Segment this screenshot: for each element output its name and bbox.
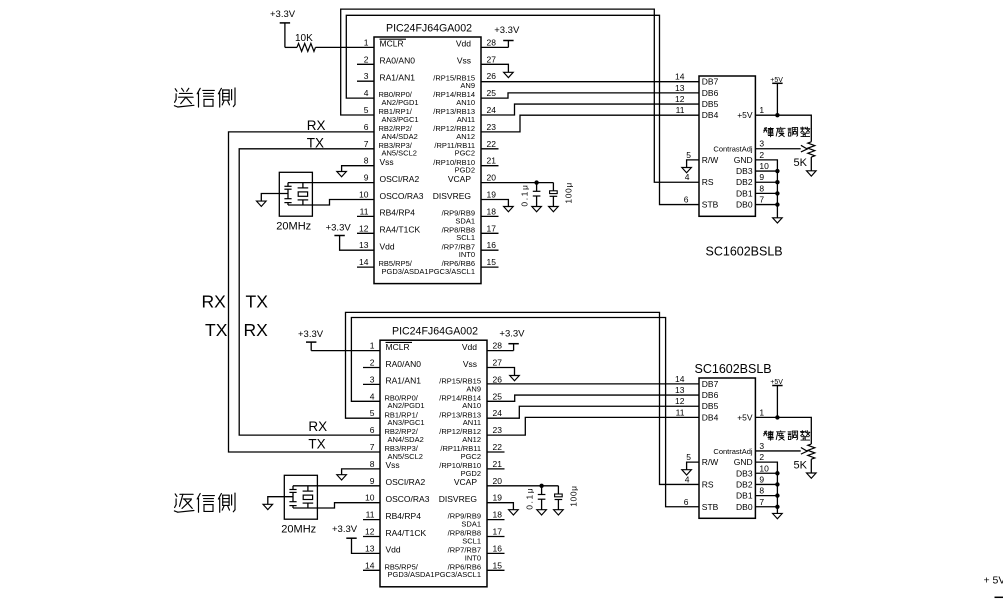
svg-text:AN3/PGC1: AN3/PGC1 — [388, 418, 425, 427]
svg-text:DB4: DB4 — [702, 412, 719, 422]
power +5V symbol at U4 pin1 — [770, 379, 783, 417]
svg-text:INT0: INT0 — [465, 553, 481, 562]
wire U3 pin26 RB15 to U4 DB7 — [487, 383, 699, 385]
svg-text:RX: RX — [307, 118, 326, 133]
svg-text:RA0/AN0: RA0/AN0 — [386, 359, 422, 369]
svg-text:DB4: DB4 — [702, 110, 719, 120]
svg-text:22: 22 — [493, 442, 503, 452]
svg-text:Vss: Vss — [386, 460, 400, 470]
wire U1 pin24 RB13 to U2 DB5 — [481, 104, 699, 115]
svg-text:DB2: DB2 — [736, 479, 753, 489]
svg-text:SCL1: SCL1 — [462, 536, 481, 545]
svg-text:Vdd: Vdd — [462, 342, 477, 352]
svg-text:RS: RS — [702, 177, 714, 187]
svg-text:VCAP: VCAP — [448, 174, 471, 184]
svg-text:6: 6 — [364, 122, 369, 132]
svg-text:1: 1 — [759, 407, 764, 417]
power +3.3V symbol at U1 pin28 Vdd — [481, 25, 520, 47]
wire U4 GND/DB3-DB0 bus to ground — [755, 462, 777, 513]
svg-text:DISVREG: DISVREG — [433, 191, 471, 201]
svg-text:24: 24 — [493, 408, 503, 418]
wire +3.3V to U3 pin1 MCLR — [311, 350, 380, 352]
svg-text:2: 2 — [370, 358, 375, 368]
ground at capacitor C2 — [549, 207, 559, 212]
svg-text:OSCI/RA2: OSCI/RA2 — [380, 174, 420, 184]
svg-text:100μ: 100μ — [564, 182, 574, 203]
svg-text:20MHz: 20MHz — [281, 523, 316, 535]
svg-text:DB6: DB6 — [702, 390, 719, 400]
LCD module U2 SC1602BSLB body — [699, 76, 783, 259]
svg-text:+5V: +5V — [737, 412, 753, 422]
ground at U4 R/W pin5 — [682, 462, 699, 475]
svg-text:SCL1: SCL1 — [456, 233, 475, 242]
svg-text:TX: TX — [246, 292, 269, 312]
ground at capacitor C4 — [554, 510, 564, 515]
svg-text:0.1μ: 0.1μ — [520, 183, 530, 206]
svg-text:PGD3/ASDA1: PGD3/ASDA1 — [382, 267, 429, 276]
svg-text:PGC3/ASCL1: PGC3/ASCL1 — [429, 267, 475, 276]
svg-text:RA4/T1CK: RA4/T1CK — [386, 528, 427, 538]
ground at potentiometer VR2 — [807, 473, 817, 478]
svg-text:AN3/PGC1: AN3/PGC1 — [382, 115, 419, 124]
svg-text:SDA1: SDA1 — [455, 216, 475, 225]
svg-text:1: 1 — [364, 37, 369, 47]
U1 unconnected right pin stubs (22,21,18,17,16,15) — [481, 149, 499, 267]
svg-text:Vss: Vss — [463, 359, 477, 369]
svg-text:ContrastAdj: ContrastAdj — [713, 447, 753, 456]
svg-text:SC1602BSLB: SC1602BSLB — [706, 245, 783, 259]
svg-text:4: 4 — [364, 88, 369, 98]
svg-text:AN11: AN11 — [457, 115, 475, 124]
svg-text:3: 3 — [370, 374, 375, 384]
wire U1 pin23 RB12 to U2 DB4 — [481, 115, 699, 132]
svg-text:RB4/RP4: RB4/RP4 — [386, 511, 422, 521]
svg-text:6: 6 — [684, 195, 689, 205]
ground at U1 pin27 Vss — [481, 64, 513, 77]
svg-text:OSCO/RA3: OSCO/RA3 — [380, 191, 424, 201]
svg-text:DB7: DB7 — [702, 77, 719, 87]
svg-text:AN9: AN9 — [460, 81, 475, 90]
label brightness adjust (kido chousei) — [764, 431, 774, 440]
svg-text:3: 3 — [759, 441, 764, 451]
svg-text:14: 14 — [359, 257, 369, 267]
svg-text:PGC3/ASCL1: PGC3/ASCL1 — [435, 570, 481, 579]
svg-text:22: 22 — [487, 139, 497, 149]
svg-text:4: 4 — [370, 391, 375, 401]
svg-text:DISVREG: DISVREG — [439, 494, 477, 504]
wire U1 pin25 RB14 to U2 DB6 — [481, 93, 699, 98]
svg-text:15: 15 — [493, 560, 503, 570]
junction node VCAP — [539, 484, 543, 488]
svg-text:19: 19 — [487, 190, 497, 200]
svg-text:28: 28 — [487, 37, 497, 47]
svg-text:AN4/SDA2: AN4/SDA2 — [382, 132, 418, 141]
wire TX net U3 pin7 RB3 (crossover from U1 RX) — [229, 303, 381, 452]
svg-text:5: 5 — [686, 150, 691, 160]
svg-text:RB4/RP4: RB4/RP4 — [380, 208, 416, 218]
svg-text:20: 20 — [487, 173, 497, 183]
wire U1 pin4 RB0 to U2 STB (inner frame) — [346, 15, 699, 204]
svg-text:27: 27 — [493, 358, 503, 368]
svg-text:+3.3V: +3.3V — [298, 329, 324, 340]
wire TX net U1 pin7 RB3 — [239, 149, 374, 303]
svg-text:+3.3V: +3.3V — [270, 9, 296, 20]
svg-text:13: 13 — [359, 240, 369, 250]
svg-text:RA1/AN1: RA1/AN1 — [380, 73, 416, 83]
ground at U3 pin8 Vss — [337, 469, 380, 480]
svg-text:9: 9 — [364, 173, 369, 183]
svg-text:AN10: AN10 — [462, 401, 481, 410]
U4 pin numbers — [675, 374, 769, 507]
svg-text:1: 1 — [370, 341, 375, 351]
svg-text:25: 25 — [487, 88, 497, 98]
ground at X2 mid terminal — [263, 497, 293, 510]
svg-text:Vdd: Vdd — [386, 545, 401, 555]
svg-text:RX: RX — [244, 320, 269, 340]
svg-text:5: 5 — [370, 408, 375, 418]
U3 unconnected left pin stubs (2,3,11,12,14) — [363, 368, 380, 571]
svg-text:2: 2 — [364, 54, 369, 64]
svg-text:AN10: AN10 — [456, 98, 475, 107]
wire RX net U1 pin6 RB2 — [229, 132, 375, 303]
wire RX net U3 pin6 RB2 (crossover from U1 TX) — [239, 303, 380, 435]
svg-text:+ 5V: + 5V — [984, 575, 1003, 587]
ground at capacitor C3 — [537, 510, 547, 515]
wire U3 pin25 RB14 to U4 DB6 — [487, 395, 699, 401]
svg-text:RA1/AN1: RA1/AN1 — [386, 376, 422, 386]
svg-text:PIC24FJ64GA002: PIC24FJ64GA002 — [392, 326, 478, 338]
ground at U3 pin19 DISVREG — [487, 503, 518, 515]
svg-text:25: 25 — [493, 391, 503, 401]
svg-text:10K: 10K — [295, 33, 313, 44]
svg-text:RX: RX — [308, 419, 327, 434]
svg-text:ContrastAdj: ContrastAdj — [713, 145, 753, 154]
power +3.3V symbol at U3 pin28 Vdd — [487, 328, 525, 350]
wire U3 pin4 RB0 to U4 STB (inner frame) — [351, 318, 699, 507]
svg-text:26: 26 — [487, 71, 497, 81]
svg-text:13: 13 — [675, 83, 685, 93]
svg-text:9: 9 — [759, 474, 764, 484]
capacitor C1 0.1u — [520, 183, 541, 207]
svg-text:RX: RX — [202, 292, 227, 312]
svg-text:1: 1 — [759, 105, 764, 115]
svg-text:7: 7 — [759, 497, 764, 507]
ground at X1 mid terminal — [257, 194, 289, 207]
svg-text:PGD3/ASDA1: PGD3/ASDA1 — [388, 570, 435, 579]
svg-text:AN2/PGD1: AN2/PGD1 — [388, 401, 425, 410]
svg-text:14: 14 — [675, 72, 685, 82]
capacitor C2 100u electrolytic — [550, 182, 574, 206]
svg-text:OSCI/RA2: OSCI/RA2 — [386, 477, 426, 487]
wire U2 GND/DB3-DB0 bus to ground — [755, 160, 777, 218]
svg-text:21: 21 — [493, 459, 503, 469]
svg-text:OSCO/RA3: OSCO/RA3 — [386, 494, 430, 504]
wire X1 bottom terminal to U1 pin10 OSCO — [288, 200, 374, 206]
svg-text:8: 8 — [364, 156, 369, 166]
wire U3 pin5 RB1 to U4 RS (outer frame) — [346, 312, 700, 484]
svg-text:13: 13 — [675, 385, 685, 395]
svg-text:10: 10 — [359, 190, 369, 200]
ground at U1 pin19 DISVREG — [481, 200, 513, 212]
svg-text:DB7: DB7 — [702, 379, 719, 389]
U3 pin numbers — [365, 341, 502, 571]
label reply side (henshin-gawa) — [174, 494, 194, 512]
svg-text:14: 14 — [365, 560, 375, 570]
svg-text:8: 8 — [759, 183, 764, 193]
svg-text:9: 9 — [759, 172, 764, 182]
svg-text:27: 27 — [487, 54, 497, 64]
wire U1 pin20 VCAP to capacitors — [481, 182, 553, 184]
power +3.3V symbol for MCLR pull-up — [270, 9, 296, 48]
power +3.3V symbol at U1 pin13 Vdd — [326, 222, 374, 250]
wire U1 pin5 RB1 to U2 RS (outer frame) — [341, 9, 699, 182]
resistor R1 10K — [285, 33, 316, 51]
label sending side (soushin-gawa) — [174, 88, 194, 107]
svg-text:19: 19 — [493, 493, 503, 503]
wire U3 pin23 RB12 to U4 DB4 — [487, 417, 699, 435]
svg-text:11: 11 — [360, 206, 369, 216]
svg-text:18: 18 — [487, 206, 497, 216]
svg-text:5: 5 — [364, 105, 369, 115]
svg-text:6: 6 — [370, 425, 375, 435]
svg-text:Vdd: Vdd — [380, 242, 395, 252]
ceramic resonator X1 20MHz module — [276, 172, 312, 232]
svg-text:DB5: DB5 — [702, 401, 719, 411]
U2 pin numbers — [675, 72, 769, 205]
svg-text:+3.3V: +3.3V — [494, 25, 520, 36]
svg-text:0.1μ: 0.1μ — [525, 487, 535, 510]
svg-text:RA4/T1CK: RA4/T1CK — [380, 225, 421, 235]
svg-text:AN4/SDA2: AN4/SDA2 — [388, 435, 424, 444]
svg-text:TX: TX — [308, 437, 325, 452]
partial +5V power symbol at bottom right edge — [984, 575, 1003, 598]
svg-text:DB2: DB2 — [736, 177, 753, 187]
ground at U2 R/W pin5 — [682, 160, 699, 173]
LCD module U4 SC1602BSLB body — [695, 362, 772, 518]
svg-text:14: 14 — [675, 374, 685, 384]
svg-text:8: 8 — [370, 459, 375, 469]
wire MCLR net to U1 pin1 — [316, 46, 375, 48]
svg-text:23: 23 — [487, 122, 497, 132]
svg-text:Vss: Vss — [457, 56, 471, 66]
svg-text:11: 11 — [676, 105, 685, 115]
label brightness adjust (kido chousei) — [764, 128, 774, 137]
svg-text:7: 7 — [759, 195, 764, 205]
svg-text:AN9: AN9 — [466, 384, 481, 393]
svg-text:R/W: R/W — [702, 155, 719, 165]
svg-text:12: 12 — [365, 527, 375, 537]
U3 unconnected right pin stubs (22,21,18,17,16,15) — [487, 452, 505, 570]
svg-text:DB1: DB1 — [736, 491, 753, 501]
svg-text:2: 2 — [759, 452, 764, 462]
svg-text:STB: STB — [702, 200, 719, 210]
svg-text:16: 16 — [493, 543, 503, 553]
ground at U4 GND bus — [773, 513, 783, 518]
svg-text:5: 5 — [686, 452, 691, 462]
svg-text:DB0: DB0 — [736, 200, 753, 210]
svg-text:TX: TX — [307, 136, 324, 151]
ceramic resonator X2 20MHz module — [281, 475, 317, 535]
svg-text:5K: 5K — [794, 157, 808, 169]
svg-text:15: 15 — [487, 257, 497, 267]
svg-text:3: 3 — [759, 139, 764, 149]
svg-text:DB1: DB1 — [736, 188, 753, 198]
svg-text:7: 7 — [364, 139, 369, 149]
svg-text:8: 8 — [759, 486, 764, 496]
svg-text:R/W: R/W — [702, 457, 719, 467]
wire U1 pin26 RB15 to U2 DB7 — [481, 81, 699, 83]
wire U4 pin3 ContrastAdj to VR2 wiper arrow — [755, 448, 807, 455]
wire U3 pin24 RB13 to U4 DB5 — [487, 406, 699, 418]
svg-text:MCLR: MCLR — [386, 342, 410, 352]
wire U3 pin20 VCAP to capacitors — [487, 485, 558, 487]
svg-text:RS: RS — [702, 479, 714, 489]
ground at U3 pin27 Vss — [487, 368, 519, 381]
svg-text:5K: 5K — [794, 459, 808, 471]
wire U4 pin1 +5V to potentiometer top — [755, 417, 811, 444]
svg-text:DB3: DB3 — [736, 166, 753, 176]
svg-text:4: 4 — [685, 474, 690, 484]
svg-text:6: 6 — [684, 497, 689, 507]
svg-text:12: 12 — [359, 223, 369, 233]
power +3.3V symbol for U3 MCLR — [298, 329, 324, 351]
svg-text:DB0: DB0 — [736, 502, 753, 512]
svg-text:7: 7 — [370, 442, 375, 452]
IC U3 PIC24FJ64GA002 microcontroller — [380, 326, 487, 587]
wire U2 pin3 ContrastAdj to VR1 wiper arrow — [755, 145, 807, 152]
svg-text:12: 12 — [675, 396, 685, 406]
wire X2 top terminal to U3 pin9 OSCI — [293, 485, 380, 487]
svg-text:17: 17 — [493, 527, 503, 537]
power +5V symbol at U2 pin1 — [770, 77, 783, 115]
junction nodes on LCD ground bus — [775, 471, 779, 509]
svg-text:10: 10 — [759, 161, 769, 171]
svg-text:+5V: +5V — [737, 110, 753, 120]
svg-text:GND: GND — [734, 155, 753, 165]
junction node +5V — [775, 113, 779, 117]
svg-text:Vdd: Vdd — [456, 39, 471, 49]
svg-text:4: 4 — [685, 172, 690, 182]
svg-text:Vss: Vss — [380, 157, 394, 167]
svg-text:STB: STB — [702, 502, 719, 512]
svg-text:10: 10 — [759, 463, 769, 473]
svg-text:17: 17 — [487, 223, 497, 233]
svg-text:PGC2: PGC2 — [461, 452, 481, 461]
ground at U2 GND bus — [773, 218, 783, 223]
svg-text:26: 26 — [493, 374, 503, 384]
ground at capacitor C1 — [532, 207, 542, 212]
svg-text:11: 11 — [676, 407, 685, 417]
svg-text:12: 12 — [675, 94, 685, 104]
wire X2 bottom terminal to U3 pin10 OSCO — [293, 503, 380, 508]
junction node VCAP — [534, 180, 538, 184]
junction nodes on LCD ground bus — [775, 169, 779, 207]
svg-text:20: 20 — [493, 476, 503, 486]
svg-text:+3.3V: +3.3V — [499, 328, 525, 339]
potentiometer VR2 5K (contrast) — [794, 444, 815, 473]
svg-text:AN12: AN12 — [462, 435, 481, 444]
power +3.3V symbol at U3 pin13 Vdd — [332, 524, 380, 553]
svg-text:23: 23 — [493, 425, 503, 435]
svg-text:2: 2 — [759, 150, 764, 160]
capacitor C3 0.1u — [525, 486, 546, 510]
svg-text:RA0/AN0: RA0/AN0 — [380, 56, 416, 66]
U1 unconnected left pin stubs (2,3,11,12,14) — [357, 64, 374, 267]
wire X1 top terminal to U1 pin9 OSCI — [288, 182, 374, 184]
svg-text:AN12: AN12 — [456, 132, 475, 141]
wire U2 pin1 +5V to potentiometer top — [755, 115, 811, 142]
svg-text:SDA1: SDA1 — [461, 520, 481, 529]
svg-text:DB5: DB5 — [702, 99, 719, 109]
ground at potentiometer VR1 — [807, 171, 817, 176]
ground at U1 pin8 Vss — [337, 166, 374, 177]
svg-text:20MHz: 20MHz — [276, 220, 311, 232]
svg-text:18: 18 — [493, 510, 503, 520]
svg-text:21: 21 — [487, 156, 497, 166]
svg-text:AN2/PGD1: AN2/PGD1 — [382, 98, 419, 107]
svg-text:SC1602BSLB: SC1602BSLB — [695, 362, 772, 376]
svg-text:VCAP: VCAP — [454, 477, 477, 487]
svg-text:AN11: AN11 — [463, 418, 481, 427]
svg-text:PIC24FJ64GA002: PIC24FJ64GA002 — [386, 23, 472, 35]
svg-text:GND: GND — [734, 457, 753, 467]
U1 pin numbers — [359, 37, 496, 267]
svg-text:13: 13 — [365, 543, 375, 553]
svg-text:+3.3V: +3.3V — [332, 524, 358, 535]
svg-text:100μ: 100μ — [569, 485, 579, 506]
capacitor C4 100u electrolytic — [555, 485, 579, 509]
svg-text:16: 16 — [487, 240, 497, 250]
svg-text:11: 11 — [366, 510, 375, 520]
potentiometer VR1 5K (contrast) — [794, 142, 815, 171]
svg-text:10: 10 — [365, 493, 375, 503]
svg-text:MCLR: MCLR — [380, 39, 404, 49]
svg-text:9: 9 — [370, 476, 375, 486]
svg-text:24: 24 — [487, 105, 497, 115]
svg-text:3: 3 — [364, 71, 369, 81]
svg-text:+3.3V: +3.3V — [326, 222, 352, 233]
svg-text:INT0: INT0 — [459, 250, 475, 259]
junction node +5V — [775, 415, 779, 419]
svg-text:DB6: DB6 — [702, 88, 719, 98]
svg-text:28: 28 — [493, 341, 503, 351]
svg-text:DB3: DB3 — [736, 468, 753, 478]
svg-text:TX: TX — [205, 320, 228, 340]
svg-text:PGC2: PGC2 — [455, 149, 475, 158]
IC U1 PIC24FJ64GA002 microcontroller — [374, 23, 481, 284]
